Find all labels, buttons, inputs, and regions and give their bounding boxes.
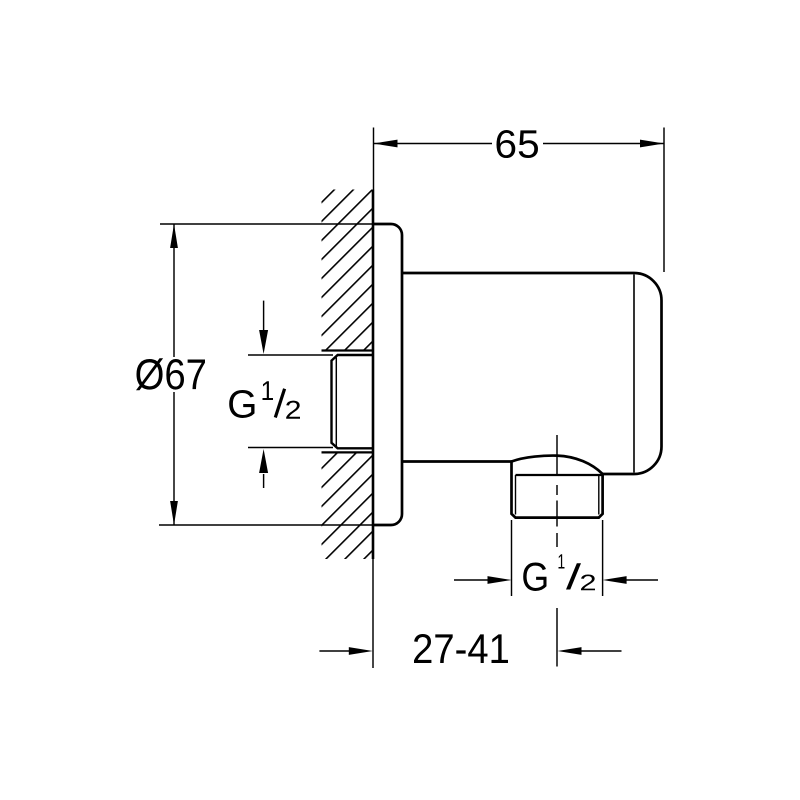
inlet nipple thread line xyxy=(335,358,337,447)
dimension 65: left arrowhead xyxy=(374,140,398,148)
dimension 65: dimension line right segment xyxy=(543,143,664,145)
dimension 65: text xyxy=(497,130,538,158)
bottom G1/2: left arrowhead xyxy=(488,576,512,584)
inner thread G1/2: down arrow shaft xyxy=(263,301,265,332)
dimension 65: left extension line xyxy=(373,128,375,190)
dimension Ø67: top extension line xyxy=(160,223,372,225)
inner thread G1/2: down arrowhead xyxy=(259,330,268,354)
wall hole bottom edge xyxy=(322,451,374,453)
bottom G1/2: left extension line xyxy=(511,520,513,596)
dimension 27-41: right arrow line xyxy=(580,650,622,652)
bottom G1/2: right extension line xyxy=(602,520,604,596)
dimension Ø67: text xyxy=(136,358,205,390)
inner thread G1/2: up arrowhead xyxy=(259,449,268,473)
outlet shoulder line xyxy=(516,474,603,476)
bottom G1/2: left arrow line xyxy=(454,579,489,581)
dimension Ø67: dimension line lower segment xyxy=(173,392,175,525)
wall hatching upper xyxy=(322,190,374,351)
dimension Ø67: bottom extension line xyxy=(159,524,372,526)
body cap tangent line xyxy=(633,275,635,473)
dimension 27-41: right arrowhead xyxy=(558,647,582,655)
dimension Ø67: dimension line upper segment xyxy=(173,224,175,357)
dimension 27-41: wall extension line xyxy=(372,559,374,668)
bottom G1/2: label xyxy=(523,563,546,591)
flange (wall plate) xyxy=(373,224,402,525)
outlet centerline xyxy=(556,435,558,667)
dimension 27-41: left arrowhead xyxy=(349,647,373,655)
sweep curve (body to outlet transition) xyxy=(512,456,603,474)
dimension 65: dimension line left segment xyxy=(374,143,493,145)
bottom G1/2: right arrowhead xyxy=(603,576,627,584)
inlet nipple (behind wall) xyxy=(332,355,374,448)
bottom G1/2: right arrow line xyxy=(626,579,658,581)
body outline xyxy=(402,273,662,518)
inner thread G1/2: label xyxy=(229,390,254,418)
inner thread G1/2: top extension line xyxy=(248,354,333,356)
wall face line xyxy=(372,190,375,560)
dimension 65: right extension line xyxy=(663,128,665,273)
inner thread G1/2: bottom extension line xyxy=(248,447,333,449)
outlet thread line right xyxy=(598,475,600,515)
wall hole top edge xyxy=(322,349,374,351)
inner thread G1/2: up arrow shaft xyxy=(263,474,265,488)
outlet thread line left xyxy=(515,475,517,515)
dimension 27-41: text xyxy=(414,634,508,663)
dimension Ø67: bottom arrowhead xyxy=(170,501,178,525)
wall hatching lower xyxy=(322,452,374,559)
dimension Ø67: top arrowhead xyxy=(170,224,178,248)
dimension 27-41: left arrow line xyxy=(319,650,350,652)
dimension 65: right arrowhead xyxy=(640,140,664,148)
